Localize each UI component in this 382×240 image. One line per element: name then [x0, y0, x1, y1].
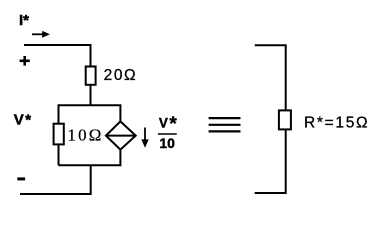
- svg-text:I*: I*: [19, 12, 29, 29]
- svg-text:10Ω: 10Ω: [67, 125, 103, 144]
- svg-text:R*=15Ω: R*=15Ω: [304, 114, 369, 131]
- svg-text:V: V: [159, 116, 168, 131]
- svg-text:*: *: [169, 114, 177, 135]
- svg-text:10: 10: [159, 135, 175, 151]
- svg-text:V*: V*: [14, 112, 33, 129]
- svg-text:20Ω: 20Ω: [104, 67, 138, 84]
